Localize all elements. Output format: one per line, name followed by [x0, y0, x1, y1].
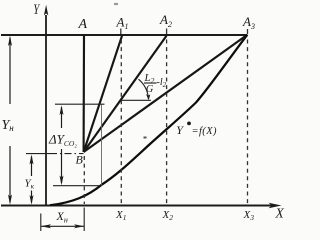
X axis: [1, 204, 272, 206]
ray B-A3: [84, 35, 248, 152]
B-level horizontal (solid then dash-dot): [26, 153, 50, 155]
dY_CO2 dimension arrow: [61, 107, 63, 183]
svg-text:A: A: [78, 17, 88, 32]
Yn top arrowhead: [8, 36, 12, 46]
Yk bottom arrowhead: [30, 195, 34, 205]
Yk dimension line: [31, 157, 33, 203]
ray B-A1: [84, 36, 122, 152]
X_n left arrowhead: [41, 224, 51, 228]
X_n dimension: extension lines: [40, 214, 42, 232]
Y axis: [45, 15, 47, 206]
stray ink mark top centre: [114, 3, 118, 5]
ray B-A2: [84, 36, 167, 152]
dashed vertical X1: [120, 40, 122, 205]
svg-text:=f(X): =f(X): [192, 126, 218, 137]
Y axis arrowhead: [44, 5, 48, 16]
svg-text:B: B: [76, 153, 84, 167]
thin vertical construction line x=101.5: [101, 105, 103, 186]
equilibrium curve Y*=f(X): [50, 35, 247, 205]
dashed vertical X2: [166, 40, 168, 205]
angle arc with arrow: [139, 79, 149, 99]
horizontal construction line y=101.5 left piece: [55, 103, 105, 105]
svg-text:X: X: [275, 206, 285, 221]
X_n dimension arrow line: [41, 225, 84, 227]
dY_CO2 top arrowhead: [60, 105, 64, 115]
fraction L2/G = l2 label: [144, 72, 167, 95]
svg-text:G: G: [146, 84, 153, 95]
dash under A2 label: [166, 29, 168, 35]
top horizontal line (Y_n level): [1, 34, 247, 36]
ink speck mid right: [144, 137, 147, 139]
dashed vertical below B: [83, 156, 85, 204]
dashed vertical X3: [247, 40, 249, 204]
Yn dimension line: [9, 38, 11, 203]
X axis arrowhead: [269, 203, 282, 208]
dash under A1 label: [120, 29, 122, 35]
Yk top arrowhead: [30, 154, 34, 164]
angle arc arrowhead: [146, 94, 150, 100]
dash under A3 label: [247, 29, 249, 34]
Yn bottom arrowhead: [8, 195, 12, 205]
dY_CO2 bottom arrowhead: [60, 176, 64, 186]
horizontal construction line y=185.7: [53, 185, 102, 187]
horizontal construction line y=101.5 right piece (angle base): [121, 99, 152, 101]
X_n right arrowhead: [74, 224, 84, 228]
line A-B (vertical operating line): [83, 36, 86, 153]
